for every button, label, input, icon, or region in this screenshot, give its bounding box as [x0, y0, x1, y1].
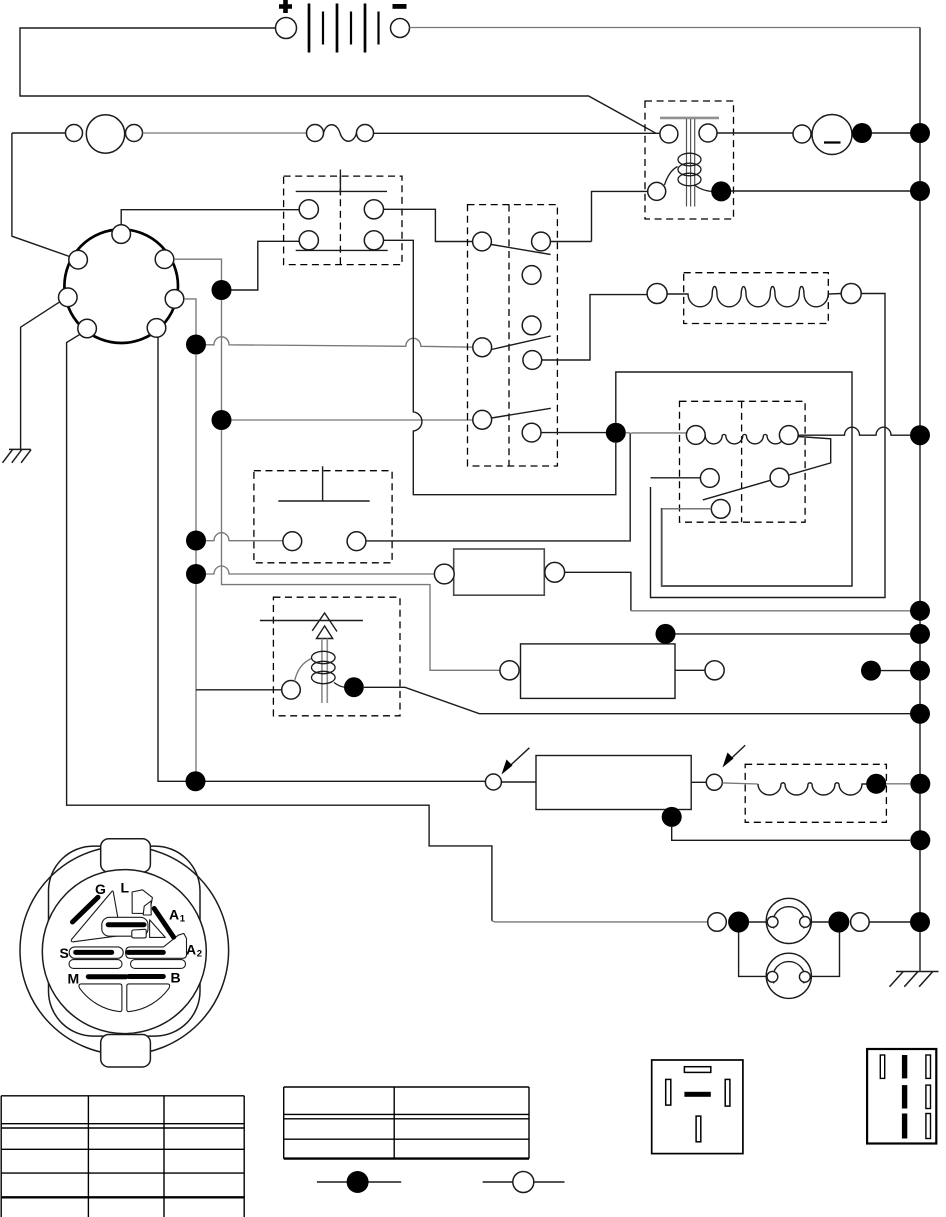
wire latch loop from node to relay common	[616, 372, 852, 586]
wire ammeter branch from harness connector	[12, 133, 70, 257]
relay K2 coil right terminal	[779, 426, 798, 445]
wire relay coil right to bus with crossovers	[798, 427, 910, 435]
key switch row1 blade	[492, 245, 551, 255]
svg-text:M: M	[68, 971, 80, 987]
starter solenoid K1 left stud	[660, 125, 678, 143]
node splice A on left gray bus	[186, 335, 206, 355]
key switch face: bottom tab	[101, 1035, 151, 1068]
wire lamp2 parallel branch	[739, 933, 840, 977]
wire interlock connector to module	[501, 781, 536, 783]
wire splice B to pedal switch row2	[232, 241, 300, 290]
wire ignition coil to bus	[364, 687, 910, 713]
pedal switch contact row1 right	[364, 200, 383, 219]
wire J1 bottom-left pin to headlights feed	[67, 334, 492, 921]
key switch mid contact	[522, 266, 541, 285]
key switch row2 left contact	[473, 338, 492, 357]
pedal switch contact row2 right	[364, 231, 383, 250]
connector J1 pin left	[59, 288, 78, 307]
wire splice D row to seat switch with crossover	[186, 531, 206, 551]
fuel solenoid coil left terminal	[647, 284, 667, 304]
node bus-670	[910, 661, 930, 681]
svg-text:S: S	[60, 945, 69, 961]
svg-text:B: B	[171, 970, 181, 986]
node splice near bus 670	[861, 661, 881, 681]
node bus-922	[910, 912, 930, 932]
node bus-611	[910, 601, 930, 621]
key face pocket mini notch	[132, 929, 146, 938]
headlight circuit connector	[708, 913, 727, 932]
seat switch dashed box	[254, 471, 392, 563]
wire hour meter to bus	[872, 132, 920, 134]
wire key row1 right to solenoid coil	[550, 241, 591, 243]
ignition coil winding	[295, 651, 346, 687]
fuse F1 element	[324, 125, 357, 142]
key face G key bar	[73, 897, 99, 922]
wire solenoid coil dot to bus	[731, 190, 920, 192]
hour meter splice dot	[852, 123, 872, 143]
pedal switch contact row2 left	[299, 231, 318, 250]
node bus-191	[910, 181, 930, 201]
battery BT1 plates	[309, 4, 379, 53]
wire ignition unit pin to bus	[676, 633, 911, 635]
clutch connector circle	[706, 774, 722, 790]
ground G1	[3, 449, 32, 462]
fuel solenoid coil dashed box	[684, 273, 829, 324]
node module bottom pin	[662, 807, 682, 827]
key switch face: mounting squircle	[49, 846, 201, 1036]
headlamp 1	[766, 898, 811, 943]
six pin connector slot r3c2	[902, 1114, 907, 1139]
battery BT1 minus sign	[393, 4, 407, 9]
key face pocket center slot	[143, 901, 151, 915]
key face mid-right key bar	[128, 950, 163, 955]
ignition coil primary terminal	[282, 681, 301, 700]
battery BT1 negative terminal	[391, 19, 410, 38]
starter solenoid K1 dashed box	[645, 101, 734, 219]
legend closed splice symbol	[317, 1181, 401, 1183]
arrow pointing at interlock connector	[507, 748, 529, 769]
key face pocket wing under A1	[150, 920, 166, 938]
battery BT1 positive terminal	[276, 18, 297, 39]
starter solenoid K1 plunger lines	[687, 119, 695, 207]
wire ignition unit right stub	[675, 669, 705, 671]
wiring table left	[1, 1096, 244, 1217]
spark plug inner arrow tip	[317, 626, 333, 639]
wire headlight to bus	[869, 921, 920, 923]
relay pinout left slot	[666, 1079, 671, 1105]
node splice C on inner gray bus	[212, 410, 232, 430]
relay K2 common contact	[711, 500, 730, 519]
ignition unit box	[521, 644, 676, 699]
key switch inner dashed divider	[508, 205, 510, 466]
starter solenoid K1 right stud	[699, 124, 717, 142]
wire relay coil feed	[630, 432, 686, 435]
node splice at interlock wire	[186, 771, 206, 791]
relay pinout top slot	[684, 1067, 710, 1073]
spark plug center electrode twin lines	[322, 639, 327, 704]
pedal switch bottom bridge bar	[296, 249, 388, 251]
diode module box	[454, 549, 545, 595]
wire fuel coil right terminal to relay NC contact	[651, 294, 886, 598]
wire into ammeter	[12, 132, 66, 134]
wire J1 top pin to pedal switch	[121, 210, 299, 225]
key switch row2 blade	[492, 336, 551, 350]
starter solenoid K1 coil winding	[665, 153, 712, 191]
wire clutch connector to coil	[722, 783, 758, 784]
ignition unit left terminal	[500, 661, 519, 680]
diode module right terminal	[545, 562, 565, 582]
key switch row1 left contact	[473, 232, 492, 251]
wire pedal row2 right down and across to relay node	[384, 240, 616, 494]
wire splice C to key switch row3	[232, 419, 473, 421]
spark plug top electrode line	[260, 620, 363, 622]
key face A1 key bar	[154, 909, 173, 938]
clutch coil dashed box	[745, 764, 886, 822]
key face pocket triangle	[71, 891, 120, 942]
six pin connector slot r1c2	[902, 1055, 907, 1078]
legend open connector symbol	[483, 1181, 565, 1183]
pedal switch contact row1 left	[299, 200, 318, 219]
key face M key bar	[88, 974, 126, 979]
key switch row3 left contact	[473, 410, 492, 429]
svg-text:L: L	[121, 880, 130, 896]
seat switch left contact	[283, 532, 302, 551]
node bus-784	[910, 774, 930, 794]
wire solenoid to hour meter	[717, 132, 793, 134]
fuse F1 right terminal	[357, 125, 374, 142]
wire battery- to right bus top	[410, 27, 921, 29]
hour meter left terminal	[793, 125, 811, 143]
starter solenoid K1 coil right junction dot	[711, 181, 731, 201]
seat switch right contact	[347, 532, 366, 551]
key face S key bar	[76, 950, 112, 955]
svg-text:A: A	[169, 907, 179, 923]
wire splice to bus	[881, 670, 910, 672]
node bus-714	[910, 704, 930, 724]
ammeter gauge right terminal	[126, 125, 143, 142]
six pin connector slot r1c3	[926, 1055, 931, 1078]
wire J1 left pin to ground	[21, 302, 60, 450]
seat switch plunger	[278, 466, 369, 501]
brake interlock connector circle	[485, 774, 501, 790]
key switch dashed box	[468, 205, 558, 466]
wire J1 right pin down to node	[184, 299, 196, 335]
connector J1 pin right	[165, 290, 184, 309]
pedal switch plunger	[296, 170, 387, 196]
wire solenoid coil to key switch B terminal	[592, 191, 648, 241]
battery BT1 plus sign	[279, 0, 292, 13]
wire diode module to bus	[565, 572, 631, 611]
six pin connector slot r3c3	[926, 1114, 931, 1139]
relay pinout right slot	[725, 1079, 730, 1106]
relay pinout bottom slot	[696, 1116, 701, 1142]
interlock module box	[536, 756, 691, 810]
key switch row1 right contact	[532, 232, 551, 251]
relay K2 inner dashed divider	[741, 401, 743, 522]
fuel solenoid coil right terminal	[841, 284, 861, 304]
hour meter minus mark	[824, 141, 841, 143]
node splice E to diode with crossover	[186, 564, 206, 584]
ammeter gauge body	[86, 115, 124, 153]
ignition coil dashed box	[273, 597, 400, 716]
relay K2 armature link	[703, 437, 831, 500]
key switch face: outer ring	[20, 846, 229, 1055]
ignition unit right terminal	[705, 661, 724, 680]
svg-text:2: 2	[197, 949, 202, 960]
wire battery+ to left loop	[20, 28, 656, 133]
node splice B on inner gray bus	[212, 280, 232, 300]
key face B key bar	[129, 974, 164, 979]
node bus-840	[910, 830, 930, 850]
hour meter body	[812, 115, 852, 155]
wire module bottom pin to bus	[672, 827, 910, 840]
key face pocket S slot	[69, 947, 123, 958]
wire splice A to key switch row2 with crossovers	[206, 337, 473, 347]
connector J1 pin upper-right	[155, 250, 174, 269]
connector J1 pin bottom-right	[147, 319, 166, 338]
node ignition coil output dot	[344, 677, 364, 697]
spark plug outer chevron	[312, 613, 337, 632]
wire node to relay coil circle	[626, 432, 630, 434]
wire J1 upper-right pin across to inner gray bus	[174, 259, 500, 670]
clutch coil winding	[758, 783, 867, 795]
wire J1 bottom-right pin to interlock row	[158, 337, 486, 781]
key face pocket L	[132, 890, 152, 914]
wire key row2 lower to fuel coil	[542, 295, 647, 360]
relay K2 NC contact	[700, 469, 719, 488]
key face pocket bottom-left pie	[79, 984, 122, 1012]
six pin connector slot r2c3	[926, 1085, 931, 1108]
wire seat switch right to relay coil	[366, 433, 630, 541]
key switch row3 blade	[492, 408, 551, 418]
connector J1 pin top	[112, 225, 131, 244]
node ignition unit top pin	[656, 624, 676, 644]
wiring table middle	[284, 1087, 529, 1159]
svg-text:A: A	[186, 942, 196, 958]
node bus-435	[910, 425, 930, 445]
key face pocket bottom-right pie	[127, 984, 170, 1012]
ground G2 at bus bottom	[890, 972, 939, 987]
key switch row2 upper contact	[522, 316, 541, 335]
fuse F1 left terminal	[307, 125, 324, 142]
svg-text:G: G	[95, 881, 106, 897]
connector J1 pin upper-left	[69, 250, 88, 269]
wire right bus vertical	[919, 28, 921, 971]
wire module right stub	[691, 781, 706, 783]
connector J1 pin bottom-left	[78, 319, 97, 338]
headlight circuit connector right	[851, 913, 870, 932]
relay pinout box	[652, 1060, 743, 1154]
relay K2 coil left terminal	[686, 426, 705, 445]
wire lamp1 to splice right	[811, 921, 828, 923]
starter solenoid K1 contact bar	[660, 117, 719, 120]
pedal switch dashed box	[284, 176, 402, 265]
six pin connector slot r1c1	[880, 1055, 884, 1078]
wire left gray bus vertical	[195, 354, 197, 781]
key face pocket A2 slot	[126, 933, 187, 958]
key switch face: top tab	[101, 839, 151, 873]
node relay coil left junction	[606, 423, 626, 443]
six pin connector box	[867, 1049, 936, 1144]
key face pocket below-S slot	[69, 960, 122, 969]
pedal switch inner dashed divider	[339, 176, 341, 265]
wire relay common gray stub	[662, 509, 711, 586]
svg-text:1: 1	[180, 914, 186, 925]
key face pocket below-A2 slot	[131, 960, 186, 969]
wire clutch coil to bus	[886, 783, 910, 785]
wire pedal row1 right to key switch row1	[384, 209, 473, 241]
arrow pointing at clutch connector	[728, 745, 745, 761]
wire splice to lamp1	[749, 921, 766, 923]
wire ammeter to fuse	[143, 132, 307, 134]
wire left gray bus tee to ignition coil	[196, 689, 282, 691]
wire key row3 right to relay node	[541, 432, 616, 434]
relay K2 NO contact	[770, 468, 789, 487]
key switch face: inner ring	[42, 870, 206, 1034]
key switch row2 lower contact	[523, 351, 542, 370]
node clutch coil output dot	[866, 774, 886, 794]
headlamp 2	[766, 953, 811, 998]
starter solenoid K1 coil left terminal	[648, 182, 666, 200]
node headlight splice right	[828, 912, 849, 933]
relay pinout center slot	[684, 1092, 710, 1097]
wire relay NC contact stub	[651, 477, 701, 479]
key face center key bar	[108, 922, 144, 927]
diode module left terminal	[434, 564, 454, 584]
node bus-634	[910, 624, 930, 644]
relay K2 coil winding	[705, 434, 784, 444]
wire fuse to starter solenoid	[374, 132, 660, 134]
key switch row3 right contact	[522, 423, 541, 442]
relay K2 dashed box	[680, 401, 806, 522]
ammeter gauge left terminal	[66, 125, 83, 142]
fuel solenoid coil winding	[667, 287, 841, 307]
six pin connector slot r2c2	[902, 1085, 907, 1108]
node bus-133	[910, 123, 930, 143]
wire headlight feed to lamp	[492, 921, 708, 922]
harness connector J1 body	[64, 229, 178, 343]
node headlight splice left	[728, 912, 749, 933]
